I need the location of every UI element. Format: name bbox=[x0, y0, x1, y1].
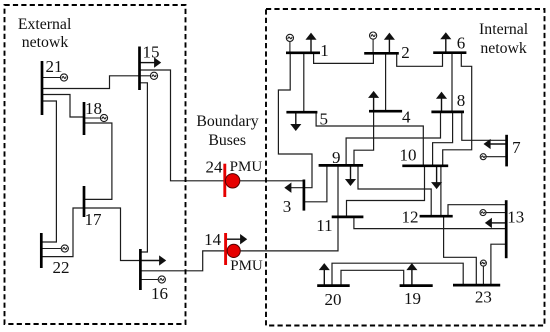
load arrow bus 16 bbox=[140, 257, 165, 265]
svg-text:Internal: Internal bbox=[479, 21, 529, 38]
generator G22 bbox=[41, 245, 68, 252]
svg-text:7: 7 bbox=[512, 138, 521, 157]
wire 16-17 bbox=[84, 208, 140, 261]
svg-text:10: 10 bbox=[400, 146, 417, 165]
load arrow bus 15 bbox=[140, 59, 161, 67]
wire 14-11 bbox=[226, 217, 338, 251]
bus bar 13 bbox=[505, 200, 508, 258]
generator G2 bbox=[370, 32, 377, 53]
svg-text:5: 5 bbox=[319, 109, 328, 128]
load arrow bus 9 bbox=[346, 165, 354, 185]
boundary bus 14 (red) bbox=[226, 233, 241, 265]
svg-text:22: 22 bbox=[53, 258, 70, 277]
svg-text:19: 19 bbox=[404, 289, 421, 308]
wire 2-4 bbox=[385, 53, 387, 111]
wire 12-13 bbox=[448, 205, 506, 217]
generator G23 bbox=[480, 260, 486, 285]
wire 1-2 bbox=[314, 53, 374, 64]
svg-text:4: 4 bbox=[402, 107, 411, 126]
load arrow bus 20 bbox=[320, 264, 328, 285]
wire 1-5 bbox=[303, 53, 305, 112]
wire 18-21 bbox=[42, 95, 84, 118]
bus bar 16 bbox=[139, 249, 142, 290]
load arrow bus 1 bbox=[307, 34, 315, 53]
wire 8-10 bbox=[433, 112, 453, 166]
svg-text:20: 20 bbox=[325, 290, 342, 309]
load arrow bus 4 bbox=[370, 92, 378, 111]
svg-text:Boundary: Boundary bbox=[196, 113, 258, 130]
svg-text:17: 17 bbox=[85, 210, 103, 229]
wire 20-23 bbox=[332, 263, 463, 285]
svg-text:netowk: netowk bbox=[480, 40, 527, 57]
load arrow bus 19 bbox=[408, 264, 416, 285]
load arrow bus 2 bbox=[385, 34, 393, 54]
wire 12-23 bbox=[444, 216, 477, 285]
svg-text:15: 15 bbox=[143, 43, 160, 62]
wire 4-9 bbox=[354, 111, 374, 165]
wire 15-24-3 bbox=[140, 70, 304, 181]
svg-text:PMU: PMU bbox=[230, 258, 263, 274]
wire 17-22 bbox=[41, 208, 84, 257]
bus bar 21 bbox=[41, 61, 44, 115]
svg-text:13: 13 bbox=[507, 208, 524, 227]
svg-text:12: 12 bbox=[402, 207, 419, 226]
wire 11-13 bbox=[354, 217, 506, 229]
bus bar 8 bbox=[431, 111, 464, 114]
generator G15 bbox=[140, 72, 158, 79]
svg-text:8: 8 bbox=[457, 91, 466, 110]
svg-text:21: 21 bbox=[46, 57, 63, 76]
svg-text:23: 23 bbox=[475, 287, 492, 306]
bus bar 12 bbox=[420, 215, 453, 218]
bus bar 3 bbox=[303, 180, 306, 211]
wire 5-10 bbox=[316, 112, 423, 166]
svg-text:11: 11 bbox=[316, 216, 332, 235]
bus bar 1 bbox=[286, 51, 320, 54]
bus bar 19 bbox=[400, 284, 433, 287]
boundary bus 24 (red) bbox=[225, 164, 240, 197]
wire 17-18 bbox=[84, 123, 112, 199]
external network dashed frame bbox=[5, 5, 186, 324]
load arrow bus 3 bbox=[286, 184, 291, 192]
load arrow bus 5 bbox=[292, 112, 300, 130]
svg-text:2: 2 bbox=[401, 43, 410, 62]
generator G13 bbox=[480, 210, 506, 216]
load arrow bus 10 bbox=[433, 166, 441, 188]
bus bar 7 bbox=[505, 135, 508, 167]
bus bar 10 bbox=[402, 164, 448, 167]
generator G21 bbox=[42, 74, 68, 81]
svg-text:Buses: Buses bbox=[208, 132, 246, 149]
bus bar 9 bbox=[319, 164, 364, 167]
wire 6-8 bbox=[451, 53, 453, 112]
wire 3-9 bbox=[304, 165, 327, 201]
wire 6-10 bbox=[443, 53, 472, 166]
load arrow bus 13 bbox=[486, 219, 506, 227]
bus bar 4 bbox=[369, 110, 402, 113]
svg-text:PMU: PMU bbox=[230, 159, 263, 175]
bus bar 22 bbox=[40, 233, 43, 268]
wire 15-21 bbox=[42, 76, 140, 89]
wire 1-3 bbox=[278, 53, 312, 188]
bus bar 23 bbox=[453, 284, 500, 287]
wire 10-12 bbox=[440, 166, 442, 216]
bus bar 2 bbox=[364, 52, 399, 55]
generator G18 bbox=[84, 114, 108, 121]
bus bar 11 bbox=[332, 216, 364, 219]
load arrow bus 6 bbox=[442, 33, 450, 52]
wire 15-16 bbox=[140, 83, 148, 252]
load arrow bus 14 bbox=[226, 235, 246, 243]
svg-text:netowk: netowk bbox=[22, 34, 69, 51]
wire 13-23 bbox=[491, 244, 506, 285]
svg-text:16: 16 bbox=[151, 284, 168, 303]
wire 8-9 bbox=[346, 112, 440, 165]
wire 9-11 bbox=[337, 165, 339, 217]
svg-text:3: 3 bbox=[283, 197, 292, 216]
svg-text:6: 6 bbox=[457, 33, 466, 52]
load arrow bus 8 bbox=[437, 93, 445, 112]
generator G7 bbox=[480, 154, 506, 160]
bus bar 17 bbox=[83, 186, 86, 217]
bus bar 6 bbox=[433, 51, 466, 54]
wire 9-12 bbox=[358, 165, 431, 216]
bus bar 20 bbox=[317, 284, 350, 287]
bus bar 5 bbox=[286, 111, 317, 114]
wire 19-20 bbox=[341, 270, 404, 285]
wire 10-11 bbox=[347, 166, 425, 217]
generator G16 bbox=[140, 276, 165, 283]
svg-text:14: 14 bbox=[204, 230, 222, 249]
svg-text:18: 18 bbox=[85, 99, 102, 118]
svg-text:External: External bbox=[18, 16, 72, 33]
svg-text:9: 9 bbox=[332, 148, 341, 167]
bus bar 15 bbox=[138, 47, 141, 91]
wire 21-22 bbox=[41, 101, 56, 242]
svg-text:24: 24 bbox=[206, 158, 224, 177]
wire 2-6 bbox=[397, 53, 443, 67]
load arrow bus 7 bbox=[485, 140, 507, 148]
svg-text:1: 1 bbox=[320, 41, 329, 60]
wire 16-14 bbox=[140, 251, 225, 271]
generator G1 bbox=[286, 34, 293, 52]
wire 7-8 bbox=[462, 112, 507, 140]
internal network dashed frame bbox=[266, 9, 545, 326]
bus bar 18 bbox=[83, 102, 86, 135]
